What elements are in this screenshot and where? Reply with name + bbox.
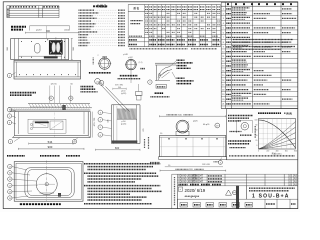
svg-text:103.1A3: 103.1A3	[288, 178, 297, 181]
svg-text:****/**/**: ****/**/**	[185, 194, 200, 199]
svg-text:544: 544	[48, 140, 53, 144]
svg-text:7: 7	[223, 37, 224, 39]
svg-text:(φ120): (φ120)	[121, 124, 127, 126]
svg-text:(120): (120)	[64, 30, 69, 32]
svg-text:18: 18	[222, 89, 224, 91]
svg-text:3: 3	[223, 18, 224, 20]
svg-text:800: 800	[294, 151, 297, 153]
svg-text:20: 20	[222, 99, 224, 101]
svg-text:形 名: 形 名	[133, 6, 139, 10]
svg-text:D000047: D000047	[194, 179, 204, 181]
svg-text:9: 9	[220, 162, 221, 164]
svg-text:470~720: 470~720	[94, 117, 96, 126]
svg-text:20: 20	[255, 140, 257, 142]
svg-text:600: 600	[115, 146, 120, 150]
svg-text:103.1A3: 103.1A3	[288, 180, 297, 183]
svg-text:1 SOU-B+A: 1 SOU-B+A	[252, 194, 290, 200]
svg-text:4: 4	[223, 23, 224, 25]
svg-text:14: 14	[9, 166, 11, 168]
svg-text:φ162: φ162	[128, 57, 132, 59]
svg-text:15: 15	[222, 75, 224, 77]
svg-text:600: 600	[285, 151, 288, 153]
svg-text:D000047: D000047	[194, 181, 204, 183]
svg-text:19: 19	[9, 198, 11, 200]
svg-text:8: 8	[223, 42, 224, 44]
svg-text:φ120×: φ120×	[36, 29, 43, 32]
svg-text:✓: ✓	[179, 187, 182, 191]
svg-text:100: 100	[254, 120, 257, 122]
svg-text:900: 900	[48, 145, 53, 149]
svg-text:2: 2	[98, 55, 99, 57]
svg-text:182~695: 182~695	[202, 164, 211, 166]
svg-text:10: 10	[222, 51, 224, 53]
svg-text:64-φ55: 64-φ55	[203, 124, 210, 126]
svg-text:14: 14	[222, 70, 224, 72]
svg-text:19: 19	[222, 94, 224, 96]
svg-text:1: 1	[223, 9, 224, 11]
svg-text:17: 17	[9, 185, 11, 187]
svg-text:400: 400	[276, 151, 279, 153]
svg-text:18: 18	[9, 192, 11, 194]
svg-text:13: 13	[222, 66, 224, 68]
svg-text:φ148: φ148	[123, 54, 127, 56]
svg-text:16: 16	[9, 179, 11, 181]
svg-text:(5.1): (5.1)	[139, 62, 143, 64]
svg-text:17: 17	[222, 85, 224, 87]
svg-text:0: 0	[256, 145, 257, 147]
svg-text:D000047: D000047	[194, 176, 204, 178]
svg-text:(φ120): (φ120)	[121, 93, 127, 95]
svg-text:375~395: 375~395	[115, 84, 124, 86]
svg-text:200: 200	[266, 151, 269, 153]
svg-text:103.1A3: 103.1A3	[288, 183, 297, 186]
svg-text:5: 5	[223, 28, 224, 30]
svg-text:13: 13	[50, 98, 52, 100]
svg-text:125 65: 125 65	[50, 84, 57, 86]
svg-text:16: 16	[222, 80, 224, 82]
svg-text:13: 13	[74, 142, 76, 144]
svg-text:21: 21	[222, 104, 224, 106]
svg-text:9: 9	[223, 47, 224, 49]
svg-text:103.1A3: 103.1A3	[288, 175, 297, 178]
svg-text:6: 6	[223, 32, 224, 34]
svg-text:13: 13	[70, 98, 72, 100]
svg-text:15: 15	[9, 173, 11, 175]
svg-text:2020/ 6/19: 2020/ 6/19	[185, 188, 206, 193]
svg-text:2: 2	[223, 13, 224, 15]
svg-text:0: 0	[258, 151, 259, 153]
svg-text:11: 11	[222, 56, 224, 58]
svg-text:12: 12	[222, 61, 224, 63]
svg-text:50/60Hz: 50/60Hz	[286, 114, 292, 116]
